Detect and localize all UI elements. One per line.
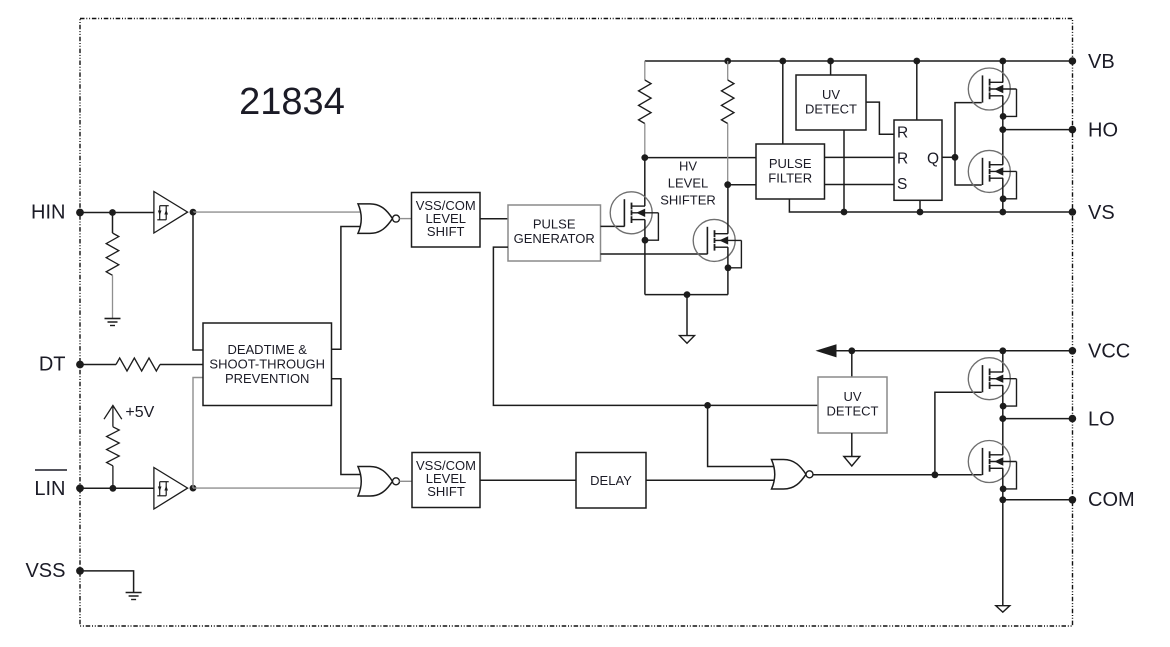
wire delay to NOR3	[646, 479, 777, 481]
pin label HO	[1088, 119, 1118, 141]
block: PULSE GENERATOR	[508, 205, 601, 261]
wire U1 output to NOR1 input	[193, 211, 363, 213]
ground under HIN resistor	[105, 319, 121, 326]
wire deadtime bottom output to NOR2	[332, 379, 364, 475]
wire LIN to buffer	[80, 487, 154, 489]
pin label DT	[39, 354, 66, 376]
pin label LO	[1088, 408, 1115, 430]
svg-text:GENERATOR: GENERATOR	[514, 231, 595, 246]
svg-text:R: R	[897, 150, 908, 167]
svg-text:DELAY: DELAY	[590, 473, 632, 488]
svg-text:SHIFT: SHIFT	[427, 224, 465, 239]
node HIN/resistor junction	[109, 209, 116, 216]
pin label LIN (with overbar)	[34, 470, 67, 500]
transistor Q5 (LO pull-up)	[968, 358, 1016, 410]
wire branch down to NOR3 input	[708, 405, 777, 466]
svg-text:VB: VB	[1088, 51, 1115, 73]
wire pulse generator left branch down to low side	[493, 247, 818, 405]
svg-text:HIN: HIN	[31, 202, 65, 224]
wire DT lead left	[80, 364, 116, 366]
svg-text:FILTER: FILTER	[768, 171, 812, 186]
ground at VSS	[126, 593, 142, 600]
label HV LEVEL SHIFTER	[660, 159, 716, 208]
node HV rail/VS arrow	[684, 291, 691, 298]
block: UV DETECT (high side)	[796, 75, 866, 130]
wire Q1 drain	[644, 158, 646, 207]
resistor R5 (HV right)	[721, 80, 734, 124]
block: PULSE FILTER	[756, 144, 825, 199]
wire UV detect bottom lead	[851, 433, 853, 457]
wire Q1 source down	[644, 220, 646, 295]
wire pulse filter bottom to VS rail	[789, 199, 1072, 212]
transistor Q4 (HO pull-down)	[968, 150, 1016, 202]
wire VCC rail	[830, 350, 1072, 352]
wire pulse filter to latch R2 input	[825, 156, 895, 158]
svg-text:VCC: VCC	[1088, 340, 1130, 362]
node rail/UV detect	[827, 58, 834, 65]
pin dot LIN	[76, 484, 84, 492]
svg-text:PULSE: PULSE	[533, 217, 576, 232]
wire R4 lower lead	[644, 124, 646, 158]
node U2 output	[190, 485, 197, 492]
wire Q4 source to VS rail	[1002, 178, 1004, 212]
wire LO to pin	[1003, 418, 1073, 420]
wire HV source rail	[645, 294, 728, 296]
wire Q to Q4 gate	[955, 157, 982, 185]
wire Q3 drain to VB rail	[1002, 61, 1004, 82]
wire pulse generator to Q2 gate	[601, 253, 708, 255]
wire G1 to level shift box	[400, 218, 412, 220]
svg-text:VS: VS	[1088, 202, 1115, 224]
node HO junction	[999, 126, 1006, 133]
wire resistor upper lead	[112, 213, 114, 234]
svg-text:PULSE: PULSE	[769, 156, 812, 171]
+5V supply arrow	[104, 406, 122, 427]
node LO junction	[999, 415, 1006, 422]
COM ground symbol (open triangle)	[996, 606, 1010, 613]
pin dot LO	[1069, 415, 1077, 423]
wire R5 upper lead	[727, 61, 729, 80]
wire latch bottom to VS rail	[919, 200, 921, 212]
wire Q2 drain	[727, 185, 729, 234]
wire level shift to delay	[480, 479, 576, 481]
wire rail to UV detect top	[830, 61, 832, 75]
node VS rail/UV line	[841, 209, 848, 216]
wire pulse generator to Q1 gate	[601, 225, 625, 227]
resistor DT series	[116, 358, 160, 371]
wire VCC to UV detect top	[851, 351, 853, 377]
IC package boundary (dash-dot border)	[80, 19, 1073, 627]
transistor Q2 (HV level shift right)	[693, 219, 741, 271]
node R4 bottom	[641, 154, 648, 161]
wire DT lead right	[160, 364, 203, 366]
svg-text:HO: HO	[1088, 119, 1118, 141]
svg-text:VSS: VSS	[25, 560, 65, 582]
wire VB top rail	[645, 60, 1073, 62]
wire pulse filter to latch S input	[825, 184, 895, 186]
svg-text:SHIFTER: SHIFTER	[660, 193, 716, 208]
node low-side branch	[704, 402, 711, 409]
wire G3 output to Q6 gate	[813, 474, 982, 476]
svg-text:UV: UV	[843, 389, 861, 404]
pin dot DT	[76, 361, 84, 369]
wire R4 upper lead	[644, 61, 646, 80]
wire Q5 source / LO node	[1002, 386, 1004, 455]
svg-text:LEVEL: LEVEL	[668, 176, 708, 191]
pin dot COM	[1069, 496, 1077, 504]
VS return symbol (open triangle)	[680, 336, 695, 344]
svg-text:Q: Q	[927, 150, 939, 167]
wire G2 to level shift box	[400, 480, 413, 482]
svg-text:HV: HV	[679, 159, 697, 174]
svg-text:DETECT: DETECT	[827, 404, 879, 419]
wire UV detect bottom to VS rail	[843, 130, 845, 212]
node R5 bottom	[724, 181, 731, 188]
svg-text:COM: COM	[1088, 489, 1135, 511]
NOR gate G1 (high side)	[358, 204, 400, 234]
latch U5 (R/R/S-Q)	[894, 120, 942, 200]
wire deadtime top output to NOR1	[332, 227, 364, 350]
VCC supply arrow (filled)	[816, 344, 837, 357]
wire level shift to pulse generator	[480, 218, 508, 220]
node rail/latch	[913, 58, 920, 65]
wire Q2 source down	[727, 247, 729, 294]
pin dot HO	[1069, 126, 1077, 134]
buffer U2 (LIN Schmitt input)	[154, 468, 188, 510]
wire UV detect to latch R input	[866, 102, 894, 134]
resistor R4 (HV left)	[639, 80, 652, 124]
wire R5 lower lead	[727, 124, 729, 185]
node VS rail/Q4 source	[999, 209, 1006, 216]
pin label VCC	[1088, 340, 1130, 362]
pin dot VCC	[1069, 347, 1077, 355]
block: VSS/COM LEVEL SHIFT (low side)	[412, 453, 480, 508]
pin label VS	[1088, 202, 1115, 224]
pin dot VSS	[76, 567, 84, 575]
pin label VB	[1088, 51, 1115, 73]
pin label VSS	[25, 560, 65, 582]
transistor Q3 (HO pull-up)	[968, 68, 1016, 120]
node VCC/Q5 drain	[999, 347, 1006, 354]
block: UV DETECT (low side)	[818, 377, 887, 433]
svg-text:LO: LO	[1088, 408, 1115, 430]
svg-text:LIN: LIN	[34, 478, 65, 500]
pin label HIN	[31, 202, 65, 224]
node rail/resistor R4	[724, 58, 731, 65]
svg-text:SHOOT-THROUGH: SHOOT-THROUGH	[209, 357, 325, 372]
node G3 output branch	[932, 471, 939, 478]
wire latch Q output	[942, 156, 955, 158]
svg-text:SHIFT: SHIFT	[427, 484, 465, 499]
part number 21834	[239, 81, 345, 123]
transistor Q6 (LO pull-down)	[968, 441, 1016, 493]
node rail/Q3 drain	[999, 58, 1006, 65]
wire down to VS arrow	[686, 295, 688, 336]
NOR gate G2 (low side)	[358, 467, 400, 497]
block: DELAY	[576, 453, 646, 509]
resistor LIN pullup	[107, 427, 120, 466]
label +5V	[125, 404, 154, 421]
wire Q to Q3 gate	[955, 103, 982, 158]
wire U2 output to deadtime box	[193, 378, 203, 489]
wire rail to pulse filter top	[782, 61, 784, 144]
wire rail to latch top	[916, 61, 918, 120]
wire R4 to pulse filter input 1	[645, 157, 756, 159]
svg-text:21834: 21834	[239, 81, 345, 123]
svg-text:R: R	[897, 124, 908, 141]
wire COM to pin	[1003, 499, 1073, 501]
wire R5 to pulse filter input 2	[728, 184, 756, 186]
resistor HIN pulldown	[106, 233, 119, 275]
svg-text:+5V: +5V	[125, 404, 154, 421]
NOR gate G3 (output)	[772, 460, 814, 490]
node COM junction	[999, 496, 1006, 503]
buffer U1 (HIN Schmitt input)	[154, 192, 188, 234]
svg-text:DT: DT	[39, 354, 66, 376]
node LIN/resistor junction	[110, 485, 117, 492]
wire resistor lower lead	[112, 275, 114, 318]
pin dot HIN	[76, 209, 84, 217]
block: DEADTIME & SHOOT-THROUGH PREVENTION	[203, 323, 332, 406]
svg-text:DEADTIME &: DEADTIME &	[227, 342, 307, 357]
block: VSS/COM LEVEL SHIFT (high side)	[412, 193, 481, 248]
wire Q5 drain to VCC rail	[1002, 351, 1004, 372]
wire U2 output to NOR2 input	[193, 487, 363, 489]
wire branch up to Q5 gate	[935, 392, 982, 475]
node rail/pulse filter	[779, 58, 786, 65]
node Q branch	[952, 154, 959, 161]
pin dot VB	[1069, 57, 1077, 65]
svg-text:PREVENTION: PREVENTION	[225, 371, 310, 386]
svg-text:DETECT: DETECT	[805, 102, 857, 117]
wire Q6 source / COM node	[1002, 468, 1004, 605]
node U1 output	[190, 209, 197, 216]
wire U1 output to deadtime box	[193, 212, 203, 350]
transistor Q1 (HV level shift left)	[610, 192, 658, 244]
wire HIN to buffer	[80, 212, 154, 214]
wire resistor lower lead to LIN	[112, 466, 114, 489]
COM return symbol under UV detect	[844, 457, 860, 467]
svg-text:UV: UV	[822, 87, 840, 102]
wire HO to pin	[1003, 129, 1073, 131]
node VS rail/latch	[917, 209, 924, 216]
wire VSS to ground	[80, 571, 134, 593]
node VCC/UV detect	[848, 347, 855, 354]
pin label COM	[1088, 489, 1135, 511]
svg-text:S: S	[897, 176, 907, 193]
wire Q3 source / HO node	[1002, 96, 1004, 165]
pin dot VS	[1069, 208, 1077, 216]
